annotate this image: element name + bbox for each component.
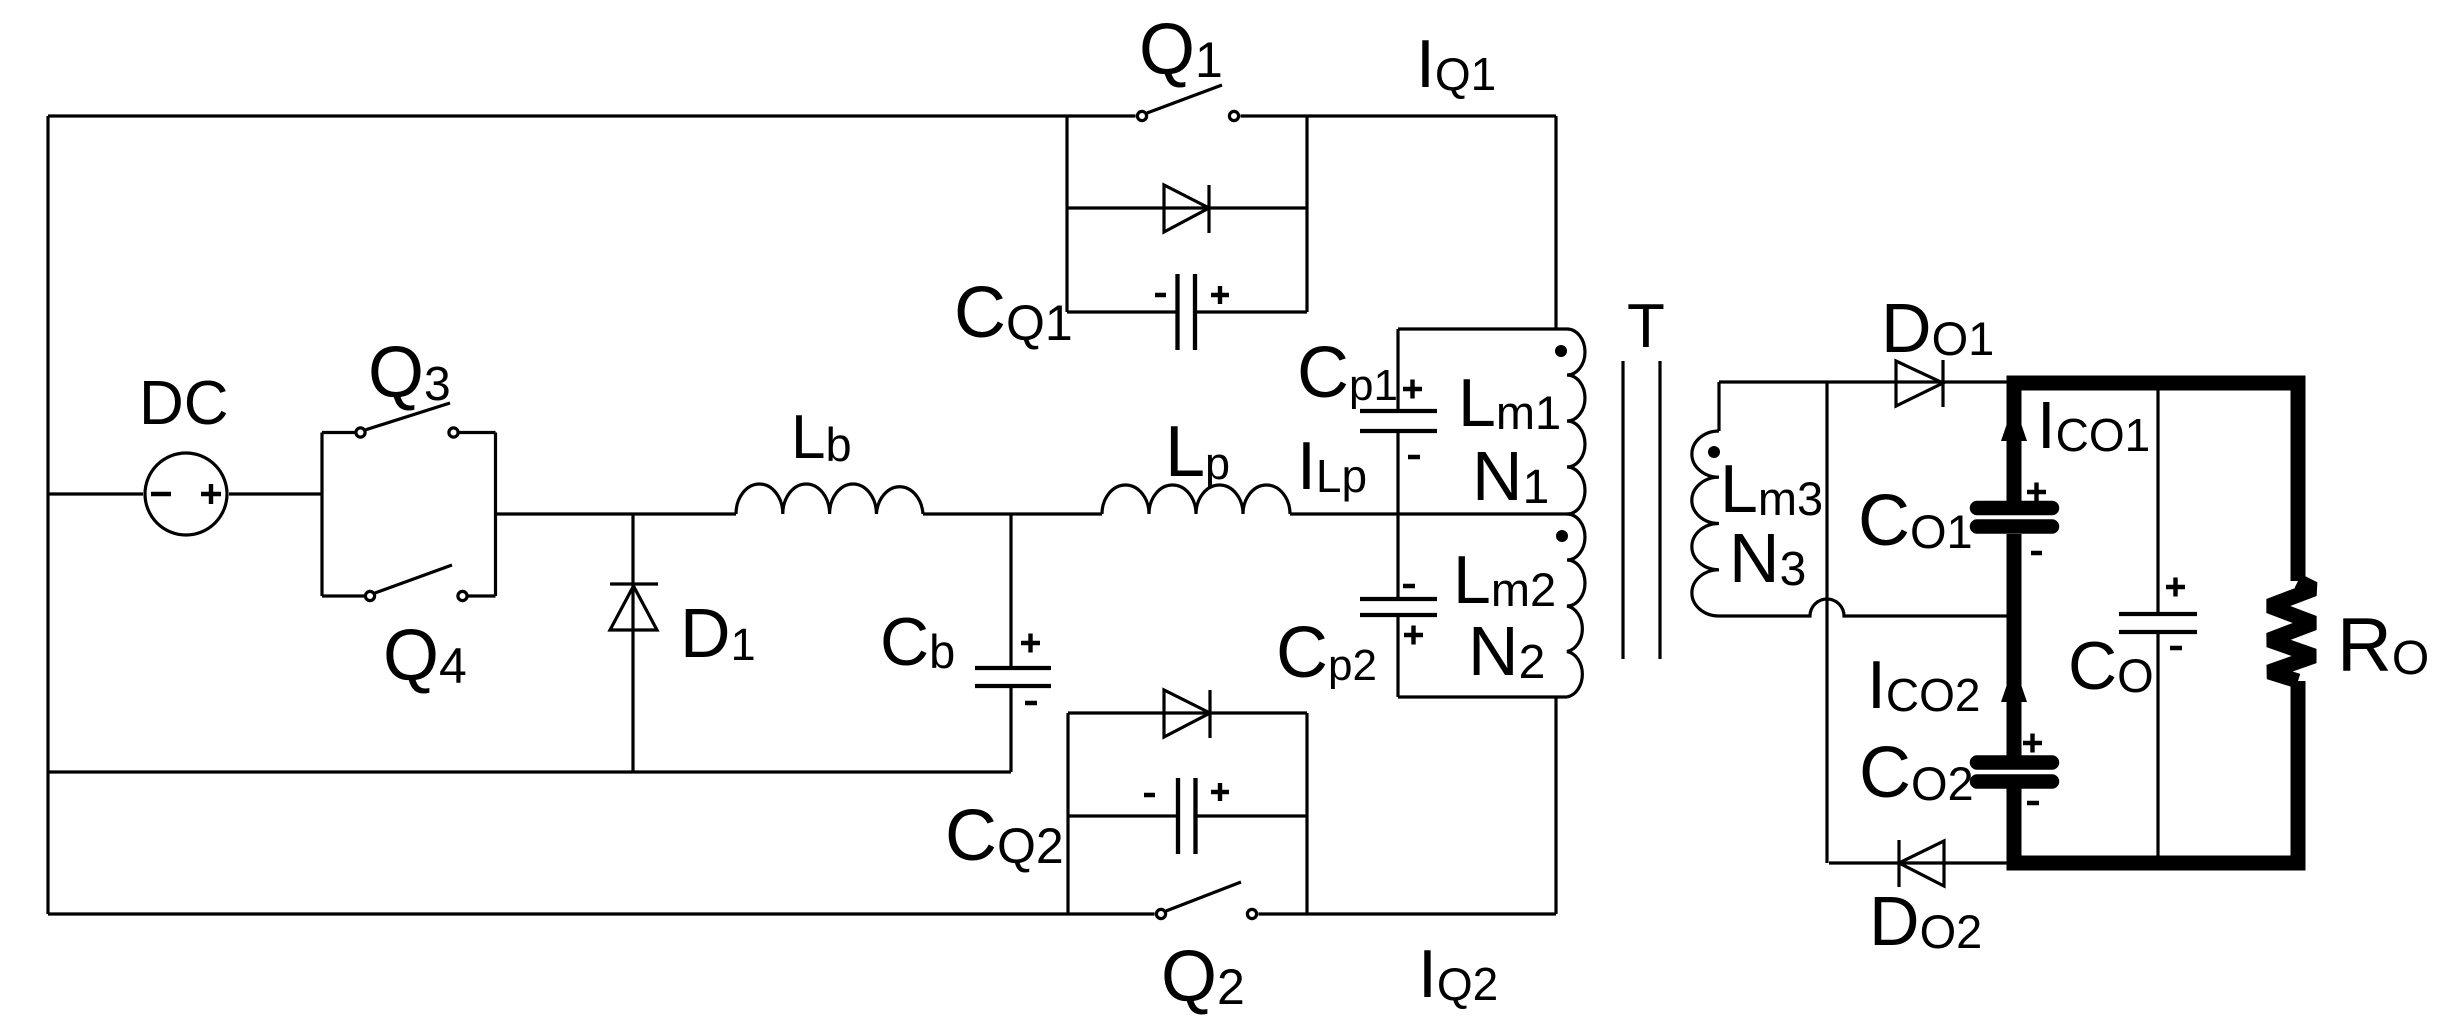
inductor Lb [736,484,923,514]
capacitor CO [2119,383,2197,863]
wire from Lp to transformer center tap [1290,512,1567,515]
wire bottom rail right of Q2 [1259,912,1557,915]
capacitor Cp2 [1360,514,1437,697]
transformer winding Lm1 N1 [1567,329,1585,514]
output loop bold bottom [2007,856,2299,871]
wire left border [46,116,49,914]
wire top rail right of Q1 [1241,114,1557,117]
polarity dot N3 [1708,446,1720,458]
wire DO2 bottom from return to diode [1829,861,2007,864]
capacitor CO2 bold [1977,734,2052,804]
polarity dot N1 [1555,345,1567,357]
transformer winding Lm2 N2 [1567,514,1585,697]
snubber box CQ2 [1068,713,1307,914]
wire lower-middle rail [48,770,1011,773]
switch box Q3 Q4 [322,433,496,597]
capacitor Cp1 [1360,329,1437,514]
wire N3 bottom with hop over return line [1719,599,2013,616]
output loop bold top [2007,376,2299,391]
capacitor CQ1 [1155,274,1229,350]
wire vertical from top rail down to transformer N1 [1554,116,1557,329]
wire DC source left lead [48,492,143,495]
wire Cp1 top to winding [1398,327,1567,330]
svg-text:T: T [1627,292,1665,361]
body diode of Q1 [1164,185,1209,233]
svg-text:DC: DC [139,369,229,438]
output loop bold right top to resistor [2291,376,2306,582]
wire top rail left of Q1 [48,114,1136,117]
switch Q3 [356,403,458,437]
diode DO2 [1899,840,1944,887]
wire DC source right lead to Q3Q4 box [229,492,322,495]
body diode of Q2 [1164,690,1210,738]
capacitor CO1 bold [1977,483,2052,554]
wire bottom rail left of Q2 [48,912,1155,915]
output loop bold right bottom [2291,681,2306,871]
wire main middle from Q3Q4 box to Lb [496,512,737,515]
polarity dot N2 [1556,530,1568,542]
switch Q1 [1137,85,1238,121]
transformer winding Lm3 N3 [1692,382,1719,616]
current arrow ICO2 [2001,664,2027,702]
snubber box CQ1 [1067,116,1307,312]
capacitor Cb [975,514,1051,772]
resistor RO bold zigzag [2269,581,2314,681]
wire N3 top to DO1 [1719,380,2007,383]
DC source V1 [145,453,227,535]
wire secondary return vertical [1825,383,1828,863]
capacitor CQ2 [1144,778,1229,854]
wire Cp2 bottom to winding [1398,695,1567,698]
switch Q4 [365,565,467,601]
inductor Lp [1102,485,1290,514]
wire vertical from bottom rail up to transformer N2 [1554,697,1557,914]
wire from Lb to node Cb [923,512,1102,515]
output loop bold left segments [2007,376,2022,871]
current arrow ICO1 [2001,403,2027,441]
diode DO1 [1896,360,1943,407]
switch Q2 [1156,882,1256,919]
diode D1 [610,514,658,772]
transformer core lines T [1623,361,1660,659]
